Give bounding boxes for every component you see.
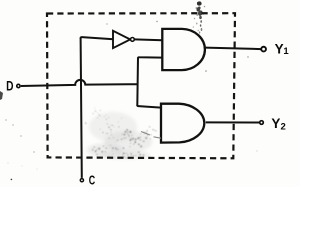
node D terminal xyxy=(17,84,20,87)
wire D branch vertical xyxy=(136,57,139,106)
node C terminal xyxy=(80,179,83,182)
AND gate U3 (bottom) xyxy=(161,104,204,143)
svg-text:D: D xyxy=(6,78,14,93)
svg-text:2: 2 xyxy=(281,122,286,133)
dashed enclosure box xyxy=(47,13,235,158)
wire C vertical riser xyxy=(81,37,82,178)
faint stub at bottom AND lower input xyxy=(141,132,161,139)
wire C to inverter input xyxy=(81,37,114,39)
wire D branch to bottom AND upper input xyxy=(137,105,161,108)
AND gate U2 (top) xyxy=(162,29,205,70)
wire D input with hop over C line xyxy=(21,80,138,86)
wire D branch to top AND lower input xyxy=(138,57,163,58)
node Y2 terminal xyxy=(260,121,264,125)
svg-text:C: C xyxy=(89,173,96,187)
svg-text:1: 1 xyxy=(283,46,289,57)
inverter U1 xyxy=(113,31,134,48)
node Y1 terminal xyxy=(261,47,266,52)
wire Y2 output xyxy=(206,121,259,123)
wire inverter output to top AND input xyxy=(134,38,162,41)
wire Y1 output xyxy=(205,48,261,50)
